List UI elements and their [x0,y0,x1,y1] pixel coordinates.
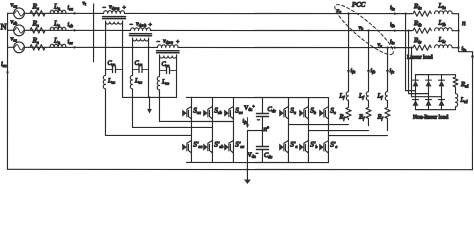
node common bus junction [148,96,150,98]
node bus c junction [457,47,459,49]
current iln arrow [471,56,474,60]
switch S'b [299,141,308,154]
current ifc arrow [386,70,389,74]
wire midpoint to ground [246,131,248,180]
svg-text:Rnl: Rnl [460,81,469,88]
wire shunt c leg [327,98,329,163]
node PCC vb junction [367,29,369,31]
wire line c to bus n [452,47,458,49]
svg-text:n: n [462,19,466,27]
current ilc arrow [394,46,398,49]
svg-text:ifn: ifn [242,119,247,125]
PCC dashed ellipse [330,0,398,60]
source vsa [14,8,25,19]
transformer Ta core [103,16,126,18]
switch S'a [279,141,288,154]
svg-text:Ls: Ls [53,36,60,45]
wire series c leg [232,97,234,162]
transformer Tb primary [131,28,151,31]
svg-text:+: + [176,39,180,45]
wire branch b to converter leg [132,89,212,128]
switch Sb [299,107,308,120]
current ifn arrow [246,118,248,126]
wire series a leg [190,97,192,162]
switch Sa [279,107,288,120]
inductor Lf b [366,92,368,101]
inductor Ls phase a [50,10,66,13]
svg-text:Cse: Cse [162,61,170,68]
wire phase c line right of transformer [178,46,412,48]
svg-text:Rla: Rla [413,3,422,10]
wire secondary common bus [122,96,176,98]
shunt branch b vertical [368,31,370,92]
node vt bus [93,4,95,62]
current ila arrow [394,12,398,15]
svg-text:vc: vc [378,42,383,48]
resistor Rs phase a [30,11,45,17]
svg-text:Ls: Ls [53,2,60,11]
svg-text:S′eb: S′eb [214,140,223,148]
wire branch c left terminal [159,56,161,75]
svg-text:Lf: Lf [358,93,365,100]
svg-text:S′c: S′c [330,141,337,149]
svg-text:vt: vt [83,0,87,6]
svg-text:Lnl: Lnl [459,97,468,104]
wire DC top rail [186,96,328,98]
wire branch c right terminal [175,56,177,97]
svg-text:+: + [149,22,153,28]
inductor Ls phase b [50,27,66,30]
wire branch c to converter leg [159,90,233,122]
wire shunt output c [328,135,387,137]
current isn arrow [7,68,9,73]
svg-text:vb: vb [359,25,364,31]
inductor Lnl [455,88,457,110]
wire phase a line [8,12,104,14]
wire phase a line right of transformer [125,12,412,14]
transformer Tb core [130,33,152,35]
switch S'ea [182,140,191,153]
resistor Rlb [413,28,431,33]
svg-text:Cdc: Cdc [267,106,275,113]
wire branch a to converter leg [105,89,191,136]
svg-text:Sa: Sa [290,107,296,115]
resistor Rs phase c [30,45,45,51]
wire branch b left terminal [132,39,134,74]
svg-text:PCC: PCC [351,2,366,9]
inductor Llc [435,45,453,48]
svg-text:ilc: ilc [390,39,395,45]
svg-text:S′ec: S′ec [235,140,244,148]
nonlinear bridge leg a [414,75,416,110]
svg-text:Llc: Llc [438,37,446,44]
inductor Lse b [130,74,132,89]
wire neutral left vertical [6,13,8,169]
svg-text:Seb: Seb [214,106,222,114]
resistor Rlc [413,45,431,50]
resistor Rla [413,11,431,16]
capacitor Cdc bottom [256,147,268,150]
nonlinear bridge leg c [440,75,442,110]
current ifb arrow [367,70,370,74]
svg-text:Lse: Lse [161,78,169,85]
svg-text:Ls: Ls [53,19,60,28]
svg-text:ila: ila [390,5,395,11]
diode bottom b [425,100,431,106]
node DC midpoint junction [261,129,263,131]
wire line a to bus n [452,13,458,15]
diode top a [413,80,419,86]
svg-text:Cse: Cse [108,60,116,67]
svg-text:iln: iln [462,46,467,52]
switch S'ec [224,140,233,153]
resistor Rf c [385,100,390,130]
svg-text:vsc: vsc [11,35,17,42]
diode top b [426,80,432,86]
svg-text:−: − [257,119,260,124]
svg-text:Rs: Rs [32,19,40,28]
resistor Rf b [366,100,371,125]
transformer Ta secondary [106,21,123,24]
svg-text:Rs: Rs [32,2,40,11]
node nonlinear tap b junction [407,30,409,32]
svg-text:vdvrb: vdvrb [136,20,146,27]
svg-text:Rlb: Rlb [413,20,422,27]
ground arrow [244,180,251,185]
wire shunt output b [308,130,368,132]
resistor Rf a [346,100,351,119]
diode bottom a [412,100,418,106]
svg-text:Cse: Cse [135,60,143,67]
svg-text:ilb: ilb [390,22,395,28]
node PCC vc junction [386,46,388,48]
svg-text:ifb: ifb [371,68,376,74]
wire DC link vertical bottom [261,150,263,163]
svg-text:Sc: Sc [330,107,336,115]
svg-text:Sb: Sb [310,107,316,115]
shunt branch a vertical [348,14,350,92]
svg-text:S′a: S′a [290,141,297,149]
svg-text:isb: isb [68,22,73,28]
wire line b to bus n [452,30,458,32]
wire bottom neutral [7,168,472,170]
wire DC bottom rail [186,161,328,163]
inductor Lf c [385,92,387,101]
diode bottom c [438,100,444,106]
svg-text:Rf: Rf [338,114,345,121]
current isc arrow [74,46,78,49]
inductor Lla [435,11,453,14]
current ifa arrow [347,70,350,74]
svg-text:Cdc: Cdc [264,152,272,159]
svg-text:no: no [263,124,269,133]
svg-text:Lse: Lse [107,77,115,84]
node nonlinear tap a junction [404,13,406,15]
svg-text:Non-linear load: Non-linear load [413,115,448,121]
resistor Rnl [453,75,458,89]
wire DC link vertical middle [261,117,263,147]
svg-text:Lla: Lla [438,3,447,10]
svg-text:vdvrc: vdvrc [163,37,173,44]
switch Seb [203,106,212,119]
svg-text:Llb: Llb [438,20,447,27]
inductor Ls phase c [50,44,66,47]
transformer Tc secondary [160,55,177,58]
switch Sec [224,106,233,119]
capacitor Cse a [106,66,123,72]
capacitor Cse b [133,66,149,72]
switch S'c [319,141,328,154]
source vsb [14,25,25,36]
shunt branch c vertical [387,48,389,92]
wire shunt output a [288,124,348,126]
inductor Lf a [346,92,348,101]
transformer Tc primary [158,45,179,48]
wire phase b line right of transformer [151,29,412,31]
node neutral ground junction [246,168,248,170]
switch S'eb [203,140,212,153]
svg-text:Vdc+: Vdc+ [244,104,255,112]
inductor Lse a [103,74,105,89]
wire DC link vertical top [261,98,263,114]
svg-text:+: + [123,5,127,11]
wire branch a left terminal [105,22,107,74]
inductor Lse c [157,75,159,90]
svg-text:vsb: vsb [11,18,18,25]
svg-text:ifc: ifc [390,68,395,74]
svg-text:Rf: Rf [376,114,383,121]
svg-text:Lse: Lse [134,77,142,84]
svg-text:Sec: Sec [235,106,242,114]
wire branch a right terminal [121,22,123,97]
current ilb arrow [394,29,398,32]
wire nonlinear tap a [406,14,416,91]
svg-text:N: N [1,21,7,31]
nonlinear bridge bottom rail [415,109,455,111]
svg-text:isa: isa [68,5,73,11]
svg-text:Rs: Rs [32,36,40,45]
svg-text:vsa: vsa [11,1,18,8]
current isa arrow [74,12,78,15]
svg-text:Rf: Rf [358,114,365,121]
node nonlinear tap c junction [410,47,412,49]
svg-text:S′b: S′b [310,141,317,149]
svg-text:ifa: ifa [351,68,356,74]
wire nonlinear tap b [408,31,428,94]
wire series b leg [211,97,213,162]
wire load neutral bus n [458,14,472,170]
wire shunt b leg [307,98,309,163]
wire phase b line [8,29,131,31]
transformer Ta primary [104,11,125,14]
svg-text:Lf: Lf [338,93,345,100]
wire DC midpoint connector [247,130,262,132]
svg-text:isc: isc [68,39,73,45]
svg-text:Vdc−: Vdc− [247,151,258,159]
transformer Tc core [157,50,180,52]
node PCC va junction [347,12,349,14]
node bus b junction [457,30,459,32]
transformer Tb secondary [133,38,149,41]
current isb arrow [74,29,78,32]
diode top c [439,80,445,86]
svg-text:S′ea: S′ea [193,140,202,148]
wire nonlinear tap c [411,48,441,97]
wire shunt a leg [287,98,289,163]
switch Sea [182,106,191,119]
ground arrow of secondary bus [148,97,150,109]
capacitor Cdc top [256,114,268,117]
svg-text:Sea: Sea [193,106,201,114]
nonlinear bridge leg b [427,75,429,110]
svg-text:Rlc: Rlc [413,37,421,44]
wire phase c line [8,46,158,48]
svg-text:vdvra: vdvra [109,3,119,10]
source vsc [14,42,25,53]
resistor Rs phase b [30,28,45,34]
svg-text:Lf: Lf [376,93,383,100]
switch Sc [319,107,328,120]
nonlinear bridge top rail [416,74,456,76]
wire branch b right terminal [147,39,149,97]
svg-text:Linear load: Linear load [407,55,433,61]
inductor Llb [435,28,453,31]
capacitor Cse c [160,67,177,73]
svg-text:isn: isn [1,61,7,68]
